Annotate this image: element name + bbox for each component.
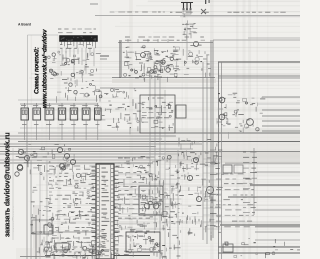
svg-text:www.rubtsovsk.ru/~davidov: www.rubtsovsk.ru/~davidov xyxy=(42,29,49,108)
svg-text:. . , . . . . — . . . . . . .: . . , . . . . — . . . . . . . xyxy=(11,205,15,232)
svg-text:Схемы почтой:: Схемы почтой: xyxy=(34,47,41,94)
svg-text:A Board: A Board xyxy=(18,23,31,27)
